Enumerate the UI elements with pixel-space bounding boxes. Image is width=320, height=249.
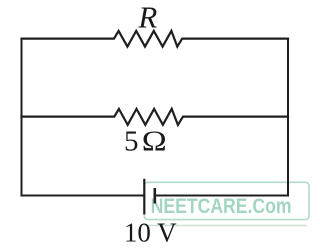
svg-text:10 V: 10 V [124,218,177,248]
svg-text:5: 5 [124,126,139,158]
svg-text:Ω: Ω [142,126,167,158]
svg-text:NEETCARE.Com: NEETCARE.Com [151,195,292,218]
svg-text:R: R [137,0,157,35]
